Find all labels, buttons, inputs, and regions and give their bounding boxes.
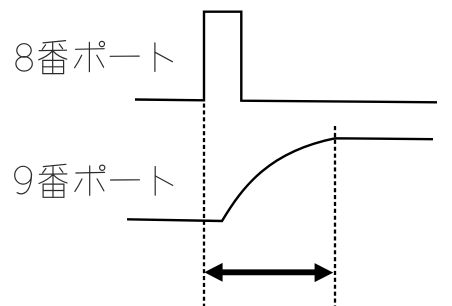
label: 9番ポート (port 9), drawn as strokes — [15, 164, 173, 197]
dashed timing line (right, at response settling) — [334, 126, 336, 306]
digit 9 — [15, 166, 32, 194]
katakana ー (line 1) — [110, 55, 139, 57]
wire: port-9 exponential response waveform — [127, 138, 433, 221]
kanji 番 (line 2) — [39, 164, 67, 197]
digit 8 — [16, 44, 32, 71]
katakana ト (line 2) — [155, 167, 173, 196]
label: 8番ポート (port 8), drawn as strokes — [16, 41, 173, 74]
kanji 番 (line 1) — [39, 41, 67, 74]
dashed timing line (left, at pulse rising edge) — [203, 104, 205, 306]
katakana ー (line 2) — [111, 179, 140, 181]
katakana ポ (line 2) — [75, 165, 105, 195]
katakana ポ (line 1) — [75, 41, 105, 71]
wire: port-8 pulse waveform — [135, 12, 437, 103]
katakana ト (line 1) — [155, 43, 173, 72]
double-headed delay arrow — [204, 263, 333, 282]
